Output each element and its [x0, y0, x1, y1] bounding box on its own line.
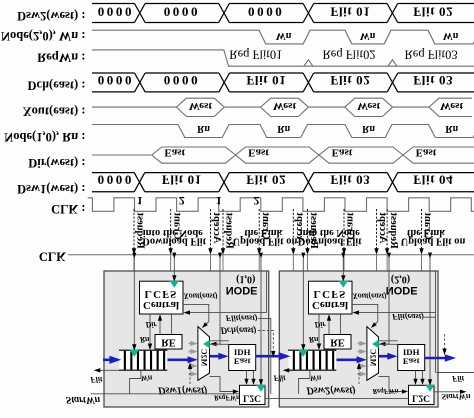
svg-text:Wn: Wn: [310, 373, 322, 382]
svg-text:East: East: [164, 147, 185, 159]
svg-text:Flit 02: Flit 02: [330, 73, 370, 88]
svg-text:RE: RE: [161, 336, 176, 347]
svg-text:RE: RE: [330, 336, 345, 347]
svg-text:Dsw2(west): Dsw2(west): [305, 385, 356, 396]
svg-text:StartWn: StartWn: [441, 392, 471, 402]
svg-text:0000: 0000: [98, 5, 134, 20]
svg-text:Xout(east): Xout(east): [182, 292, 218, 301]
svg-text:0000: 0000: [164, 5, 200, 20]
svg-text:Wn: Wn: [141, 373, 153, 382]
svg-text:2: 2: [253, 194, 259, 208]
svg-text:Wn: Wn: [276, 30, 292, 41]
svg-text:(2,0): (2,0): [391, 274, 410, 285]
svg-text:Accept: Accept: [377, 212, 388, 243]
svg-text:NODE: NODE: [386, 284, 418, 296]
svg-text:Rn: Rn: [197, 123, 210, 134]
svg-text:Flit 01: Flit 01: [162, 172, 202, 187]
svg-text:West: West: [357, 100, 381, 112]
svg-text:Dch(east): Dch(east): [220, 326, 257, 336]
svg-text:1: 1: [216, 194, 222, 208]
svg-text:West: West: [440, 100, 464, 112]
svg-text:L2C: L2C: [243, 392, 261, 402]
svg-text:Rn: Rn: [362, 123, 375, 134]
svg-text:Req Flit03: Req Flit03: [404, 48, 457, 62]
svg-text:Flit 02: Flit 02: [413, 5, 453, 20]
svg-text:Flit 02: Flit 02: [246, 172, 286, 187]
svg-text:ReqFWn: ReqFWn: [371, 387, 398, 395]
svg-text:IDH: IDH: [234, 348, 251, 358]
svg-text:0000: 0000: [98, 172, 134, 187]
svg-text:Flit 04: Flit 04: [413, 172, 453, 187]
svg-text:Node(1,0), Rn :: Node(1,0), Rn :: [4, 130, 85, 144]
svg-text:Accept: Accept: [211, 212, 222, 243]
svg-text:Req Flit01: Req Flit01: [229, 48, 282, 62]
svg-text:Flit 01: Flit 01: [330, 5, 370, 20]
svg-text:M2C: M2C: [368, 349, 377, 367]
svg-text:Dsw1(west) :: Dsw1(west) :: [17, 182, 85, 196]
svg-text:Req Flit02: Req Flit02: [322, 48, 375, 62]
svg-text:0000: 0000: [98, 73, 134, 88]
svg-text:M2C: M2C: [199, 349, 208, 367]
svg-text:LCFS: LCFS: [314, 288, 347, 300]
svg-text:IDH: IDH: [403, 348, 420, 358]
svg-text:LCFS: LCFS: [145, 288, 178, 300]
svg-text:Flit: Flit: [451, 374, 465, 383]
svg-text:Upload Flit on: Upload Flit on: [401, 236, 466, 247]
svg-text:Central: Central: [143, 299, 179, 311]
svg-text:1: 1: [137, 194, 143, 208]
svg-text:Dir: Dir: [144, 320, 157, 329]
svg-text:Xout(east) :: Xout(east) :: [23, 104, 86, 118]
svg-text:Rn: Rn: [277, 123, 290, 134]
svg-text:East: East: [234, 357, 251, 367]
svg-text:Flit(east): Flit(east): [391, 312, 424, 322]
svg-text:Flit 01: Flit 01: [246, 73, 286, 88]
svg-text:East: East: [403, 357, 420, 367]
svg-text:Rn: Rn: [139, 335, 150, 344]
svg-text:CLK :: CLK :: [51, 202, 85, 216]
svg-text:2: 2: [179, 194, 185, 208]
svg-text:Download Flit: Download Flit: [298, 236, 362, 247]
svg-text:L2C: L2C: [412, 392, 430, 402]
svg-text:West: West: [273, 100, 297, 112]
svg-text:Central: Central: [312, 299, 348, 311]
svg-text:Rn: Rn: [308, 335, 319, 344]
svg-text:StartWn: StartWn: [66, 394, 101, 405]
svg-text:East: East: [248, 147, 269, 159]
svg-text:Upload Flit on: Upload Flit on: [233, 236, 298, 247]
svg-text:Flit 03: Flit 03: [413, 73, 453, 88]
svg-text:Wn: Wn: [360, 30, 376, 41]
svg-text:Dir: Dir: [313, 320, 326, 329]
svg-text:NODE: NODE: [226, 284, 258, 296]
svg-text:Flit: Flit: [272, 374, 286, 383]
svg-text:Xout(east): Xout(east): [351, 292, 387, 301]
svg-text:Flit 03: Flit 03: [330, 172, 370, 187]
svg-text:Dch(east) :: Dch(east) :: [28, 78, 86, 92]
svg-text:(1,0): (1,0): [236, 274, 255, 285]
svg-text:East: East: [332, 147, 353, 159]
svg-text:Flit(east): Flit(east): [224, 313, 257, 323]
svg-text:ReqFWn: ReqFWn: [213, 393, 240, 401]
svg-text:Request: Request: [388, 212, 399, 249]
svg-text:Dsw2(west) :: Dsw2(west) :: [17, 9, 85, 23]
svg-text:Flit: Flit: [89, 375, 103, 384]
svg-text:West: West: [189, 100, 213, 112]
svg-text:Node(2,0), Wn :: Node(2,0), Wn :: [1, 29, 86, 43]
svg-text:East: East: [416, 147, 437, 159]
svg-text:Dir(west) :: Dir(west) :: [28, 156, 85, 170]
svg-text:Download Flit: Download Flit: [142, 236, 206, 247]
svg-text:0000: 0000: [164, 73, 200, 88]
svg-text:Wn: Wn: [443, 30, 459, 41]
svg-text:0000: 0000: [248, 5, 284, 20]
svg-text:Rn: Rn: [445, 123, 458, 134]
svg-text:ReqWn :: ReqWn :: [37, 50, 85, 64]
svg-text:CLK: CLK: [39, 249, 66, 263]
